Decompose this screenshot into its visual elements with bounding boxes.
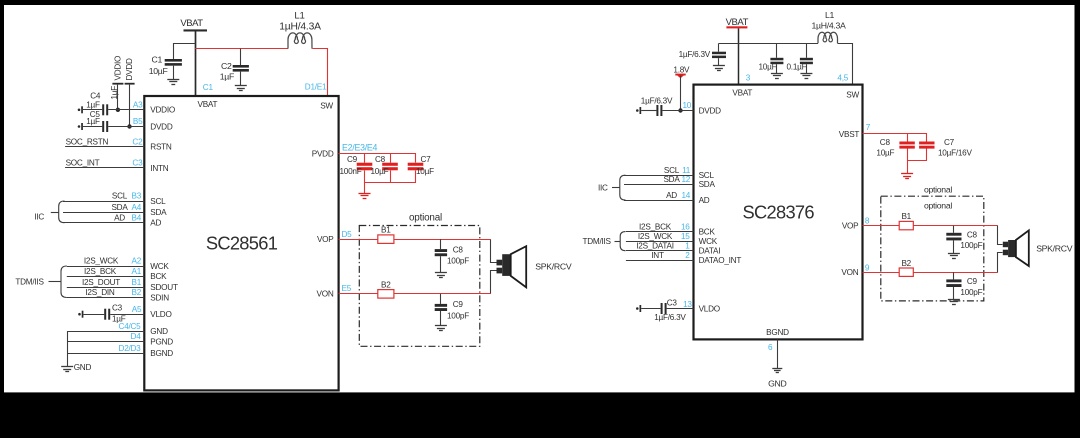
net BGND (D2/D3 pin) (67, 344, 144, 354)
svg-text:D1/E1: D1/E1 (305, 83, 327, 92)
ground (C9 left optional) (435, 326, 447, 331)
svg-text:TDM/IIS: TDM/IIS (15, 277, 44, 286)
svg-text:VBAT: VBAT (180, 18, 203, 29)
svg-text:VBAT: VBAT (732, 88, 752, 97)
svg-text:GND: GND (74, 363, 92, 372)
svg-text:E2/E3/E4: E2/E3/E4 (342, 143, 378, 153)
pin names BCK/WCK/DATAI/DATAO_INT (699, 228, 742, 266)
svg-text:SOC_RSTN: SOC_RSTN (66, 137, 109, 146)
svg-text:B2: B2 (901, 259, 911, 268)
svg-text:10: 10 (683, 101, 692, 110)
pin names left column U1 (150, 106, 178, 358)
capacitor C3 1uF/6.3V (right VLDO) (636, 298, 694, 321)
svg-text:1µH/4.3A: 1µH/4.3A (279, 21, 321, 32)
power flag VBAT (left) (180, 18, 207, 32)
svg-text:VDDIO: VDDIO (114, 56, 123, 81)
power flag VBAT (right, red bar) (726, 17, 749, 28)
svg-text:SCL: SCL (664, 166, 680, 175)
optional box (left) (359, 212, 480, 346)
svg-text:GND: GND (150, 327, 168, 336)
svg-text:6: 6 (768, 343, 773, 352)
svg-text:SW: SW (320, 102, 333, 111)
svg-text:1µF/6.3V: 1µF/6.3V (654, 313, 686, 322)
svg-text:8: 8 (865, 216, 870, 225)
svg-text:SCL: SCL (699, 171, 715, 180)
node junction B5 (127, 124, 131, 128)
net SOC_RSTN (65, 137, 144, 146)
wire DVDD bar to B5 line (129, 85, 131, 127)
svg-text:A1: A1 (131, 267, 141, 276)
inductor L1 1uH/4.3A (left) (279, 11, 321, 49)
ground (PVDD, red) (359, 194, 371, 199)
svg-text:optional: optional (924, 185, 952, 195)
svg-text:C2: C2 (221, 61, 232, 71)
svg-text:VLDO: VLDO (699, 304, 720, 313)
svg-text:IIC: IIC (34, 213, 44, 222)
wire L1 to SW (right) (838, 44, 853, 85)
capacitor C7 10uF (PVDD) (408, 155, 434, 176)
capacitor C9 100nF (PVDD) (340, 155, 373, 176)
svg-text:12: 12 (681, 175, 690, 184)
ferrite bead B1 (left) (378, 226, 394, 244)
capacitor C2 1uF (220, 61, 249, 85)
svg-text:VBST: VBST (839, 130, 860, 139)
wire ground drop (left) (67, 331, 69, 366)
ground (C1) (167, 80, 179, 85)
ground (C8 right optional) (948, 254, 960, 259)
svg-text:C2: C2 (132, 137, 143, 146)
capacitor 1uF/6.3V (VBAT right) (679, 43, 726, 65)
wire VDDIO bar to A3 line (117, 85, 119, 110)
ferrite bead B2 (left) (378, 280, 394, 298)
bracket IIC (left) (34, 201, 64, 223)
svg-text:VOP: VOP (842, 222, 859, 231)
ferrite bead B2 (right) (899, 259, 913, 277)
svg-text:1.8V: 1.8V (673, 66, 690, 75)
svg-text:SPK/RCV: SPK/RCV (1036, 244, 1073, 254)
svg-text:1µF: 1µF (86, 101, 100, 110)
net I2S_WCK (67, 257, 145, 267)
ground (C9 right optional) (948, 300, 960, 305)
svg-text:C1: C1 (151, 55, 162, 65)
ground (1uF/6.3V right top) (713, 66, 725, 71)
wire speaker hookup (left) (491, 240, 497, 294)
svg-text:SC28561: SC28561 (206, 233, 278, 254)
wire red L1 to SW pin D1/E1 (313, 49, 328, 97)
svg-text:B1: B1 (901, 212, 911, 221)
svg-text:SOC_INT: SOC_INT (66, 159, 100, 168)
power flag DVDD (vertical) (125, 58, 135, 85)
svg-text:TDM/IIS: TDM/IIS (583, 237, 612, 246)
ground (C8 left optional) (435, 273, 447, 278)
svg-text:AD: AD (699, 196, 710, 205)
svg-text:PGND: PGND (150, 337, 173, 346)
svg-text:VDDIO: VDDIO (150, 106, 175, 115)
speaker SPK/RCV (right) (1003, 230, 1073, 266)
svg-text:1µF: 1µF (86, 117, 100, 126)
svg-text:IIC: IIC (598, 183, 608, 192)
svg-text:15: 15 (681, 232, 690, 241)
svg-text:E5: E5 (342, 284, 352, 293)
svg-text:I2S_BCK: I2S_BCK (639, 222, 672, 231)
svg-text:10µF: 10µF (371, 167, 389, 176)
svg-text:B4: B4 (131, 213, 141, 222)
svg-text:I2S_WCK: I2S_WCK (84, 257, 119, 266)
svg-text:SDIN: SDIN (150, 293, 169, 302)
svg-text:C7: C7 (421, 155, 432, 164)
net I2S_DIN (67, 288, 145, 297)
svg-text:1µF: 1µF (220, 72, 234, 82)
svg-text:SDA: SDA (699, 180, 716, 189)
svg-text:INT: INT (651, 251, 664, 260)
svg-text:optional: optional (409, 212, 442, 223)
svg-text:16: 16 (681, 222, 690, 231)
svg-text:VOP: VOP (317, 235, 334, 244)
svg-text:C9: C9 (453, 300, 464, 309)
svg-text:C7: C7 (944, 138, 955, 147)
capacitor C7 10uF/16V (VBST) (919, 138, 972, 157)
wire VOP red (right) (863, 225, 998, 227)
svg-text:C3: C3 (132, 159, 143, 168)
svg-text:1: 1 (685, 241, 690, 250)
svg-text:100nF: 100nF (340, 167, 362, 176)
svg-text:VLDO: VLDO (150, 310, 171, 319)
pin names SCL/SDA/AD (right IC) (699, 171, 716, 205)
net SDA (63, 203, 144, 213)
wire 1.8V to DVDD (680, 76, 682, 111)
svg-text:C8: C8 (967, 230, 978, 239)
svg-text:optional: optional (924, 200, 952, 210)
ferrite bead B1 (right) (899, 212, 913, 230)
wire speaker hookup (right) (998, 226, 1003, 273)
capacitor C8 100pF (left optional) (435, 239, 470, 273)
capacitor C9 100pF (left optional) (435, 294, 470, 326)
svg-text:B1: B1 (131, 278, 141, 287)
net SCL (63, 192, 144, 202)
svg-text:100pF: 100pF (960, 288, 982, 297)
svg-text:B2: B2 (381, 280, 391, 289)
svg-text:10µF: 10µF (759, 62, 777, 71)
power flag VDDIO (vertical) (112, 56, 123, 85)
svg-text:DVDD: DVDD (125, 58, 134, 81)
net SCL (right) (624, 166, 694, 176)
ground (0.1uF right top) (800, 74, 812, 79)
svg-text:9: 9 (865, 263, 870, 272)
net SDA (right) (624, 175, 694, 185)
svg-text:VON: VON (317, 290, 334, 299)
svg-text:BCK: BCK (150, 272, 167, 281)
node junction DVDD (right) (678, 108, 682, 112)
ground (10uF right top) (771, 74, 783, 79)
svg-text:4,5: 4,5 (837, 73, 848, 82)
svg-text:10µF/16V: 10µF/16V (938, 149, 972, 158)
svg-text:WCK: WCK (150, 262, 169, 271)
wire red bus VBAT to L1 (195, 48, 288, 50)
svg-text:VBAT: VBAT (198, 100, 218, 109)
svg-text:SDA: SDA (663, 175, 680, 184)
svg-text:1µF/6.3V: 1µF/6.3V (641, 96, 673, 105)
svg-text:7: 7 (866, 123, 871, 132)
net I2S_DOUT (67, 278, 145, 288)
net SOC_INT (65, 159, 144, 168)
wire VON red (right) (863, 272, 998, 274)
IC U1 SC28561 (144, 96, 338, 390)
wire VBAT stem (right) (738, 28, 740, 84)
wire VON red (339, 293, 491, 295)
svg-text:C1: C1 (203, 83, 214, 92)
wire C1 branch (174, 44, 196, 60)
svg-text:VON: VON (841, 268, 858, 277)
wire BGND drop (777, 339, 779, 368)
ground GND (left bottom) (61, 363, 91, 372)
svg-text:C8: C8 (375, 155, 386, 164)
svg-text:DVDD: DVDD (699, 106, 722, 115)
svg-text:A4: A4 (131, 203, 141, 212)
IC U2 SC28376 (694, 85, 863, 340)
svg-text:L1: L1 (294, 11, 304, 22)
svg-text:I2S_DOUT: I2S_DOUT (82, 278, 120, 287)
svg-text:3: 3 (746, 73, 751, 82)
svg-text:SDA: SDA (150, 208, 167, 217)
svg-text:GND: GND (768, 379, 786, 389)
svg-text:DATAO_INT: DATAO_INT (699, 256, 742, 265)
net INT (right) (626, 251, 694, 261)
svg-text:WCK: WCK (699, 237, 718, 246)
svg-text:I2S_DATAI: I2S_DATAI (636, 241, 674, 250)
net GND (C4/C5 pin) (67, 322, 144, 332)
bracket TDM/IIS (left) (15, 266, 66, 298)
net I2S_BCK (right) (626, 222, 694, 231)
svg-text:DVDD: DVDD (150, 122, 173, 131)
svg-text:D4: D4 (131, 332, 142, 341)
svg-text:L1: L1 (825, 10, 835, 20)
speaker SPK/RCV (left) (497, 246, 572, 287)
net PGND (D4 pin) (67, 332, 144, 341)
svg-text:C8: C8 (880, 138, 891, 147)
net AD (63, 213, 144, 222)
net AD (right) (624, 191, 694, 201)
capacitor 0.1uF (right top) (787, 43, 813, 73)
ground (VBST red) (901, 174, 913, 179)
net PVDD red bus (339, 143, 416, 193)
svg-text:A2: A2 (131, 257, 141, 266)
svg-text:0.1µF: 0.1µF (787, 62, 807, 71)
pin names right column U1 (312, 150, 335, 299)
svg-text:1µF/6.3V: 1µF/6.3V (679, 50, 711, 59)
svg-text:14: 14 (681, 191, 690, 200)
svg-text:INTN: INTN (150, 164, 168, 173)
svg-text:10µF: 10µF (416, 167, 434, 176)
capacitor C8 10uF (VBST) (876, 138, 914, 157)
svg-text:BGND: BGND (150, 349, 173, 358)
wire VOP red (339, 239, 491, 241)
svg-text:BCK: BCK (699, 228, 716, 237)
capacitor C5 1uF (78, 110, 145, 132)
net I2S_WCK (right) (626, 232, 694, 242)
capacitor 1uF/6.3V (DVDD) (636, 96, 694, 116)
svg-text:B1: B1 (381, 226, 391, 235)
svg-text:B2: B2 (131, 288, 141, 297)
ground (C2) (235, 86, 247, 91)
optional box (right) (881, 185, 984, 301)
wire top bus (right) (719, 43, 818, 45)
svg-text:C3: C3 (667, 298, 678, 307)
net I2S_BCK (67, 267, 145, 277)
svg-text:SCL: SCL (150, 197, 166, 206)
svg-text:SPK/RCV: SPK/RCV (535, 261, 572, 271)
bracket IIC (right) (598, 175, 626, 200)
svg-text:SDOUT: SDOUT (150, 283, 178, 292)
svg-text:A3: A3 (133, 101, 143, 110)
ground (BGND right) (772, 369, 782, 373)
capacitor C1 10uF (149, 55, 182, 80)
wire C2 stub (240, 49, 242, 65)
svg-text:DATAI: DATAI (699, 247, 721, 256)
svg-text:11: 11 (682, 166, 691, 175)
svg-text:PVDD: PVDD (312, 150, 334, 159)
svg-text:D2/D3: D2/D3 (119, 344, 142, 353)
bracket TDM/IIS (right) (583, 232, 626, 251)
capacitor C8 10uF (PVDD) (371, 155, 398, 176)
svg-text:10µF: 10µF (876, 149, 894, 158)
svg-text:C9: C9 (967, 277, 978, 286)
svg-text:C4: C4 (90, 92, 101, 101)
svg-text:BGND: BGND (766, 328, 789, 337)
svg-text:C4/C5: C4/C5 (119, 322, 142, 331)
svg-text:B3: B3 (131, 192, 141, 201)
net VBST red (839, 123, 927, 173)
svg-text:100pF: 100pF (447, 311, 469, 320)
svg-text:SC28376: SC28376 (743, 201, 815, 222)
capacitor C4 1uF (78, 92, 145, 116)
svg-text:I2S_BCK: I2S_BCK (84, 267, 117, 276)
net I2S_DATAI (right) (626, 241, 694, 250)
node junction A3 (116, 108, 120, 112)
capacitor C9 100pF (right optional) (946, 272, 982, 299)
svg-text:SDA: SDA (111, 203, 128, 212)
svg-text:10µF: 10µF (149, 66, 168, 76)
svg-text:D5: D5 (342, 230, 353, 239)
svg-text:SCL: SCL (112, 192, 128, 201)
svg-text:AD: AD (114, 213, 125, 222)
svg-text:2: 2 (685, 251, 690, 260)
svg-text:C3: C3 (112, 304, 123, 313)
capacitor 10uF (right top) (759, 43, 784, 73)
svg-text:100pF: 100pF (960, 241, 982, 250)
svg-text:13: 13 (683, 300, 692, 309)
svg-text:SW: SW (846, 90, 859, 99)
wire VBAT stem to IC pin C1 (195, 30, 197, 96)
capacitor C8 100pF (right optional) (946, 226, 982, 253)
svg-text:C8: C8 (453, 245, 464, 254)
inductor L1 1uH/4.3A (right) (812, 10, 847, 44)
svg-text:RSTN: RSTN (150, 143, 172, 152)
svg-text:A5: A5 (132, 305, 142, 314)
svg-text:1µH/4.3A: 1µH/4.3A (812, 20, 847, 30)
svg-text:I2S_WCK: I2S_WCK (638, 232, 673, 241)
svg-text:100pF: 100pF (447, 257, 469, 266)
svg-text:AD: AD (150, 219, 161, 228)
capacitor C3 1uF (VLDO) (78, 304, 144, 324)
svg-text:C9: C9 (347, 155, 358, 164)
svg-text:AD: AD (666, 191, 677, 200)
svg-text:B5: B5 (133, 117, 143, 126)
pin name BGND + pin 6 (766, 328, 789, 352)
power flag 1.8V (red) (673, 66, 690, 79)
svg-text:I2S_DIN: I2S_DIN (85, 288, 115, 297)
